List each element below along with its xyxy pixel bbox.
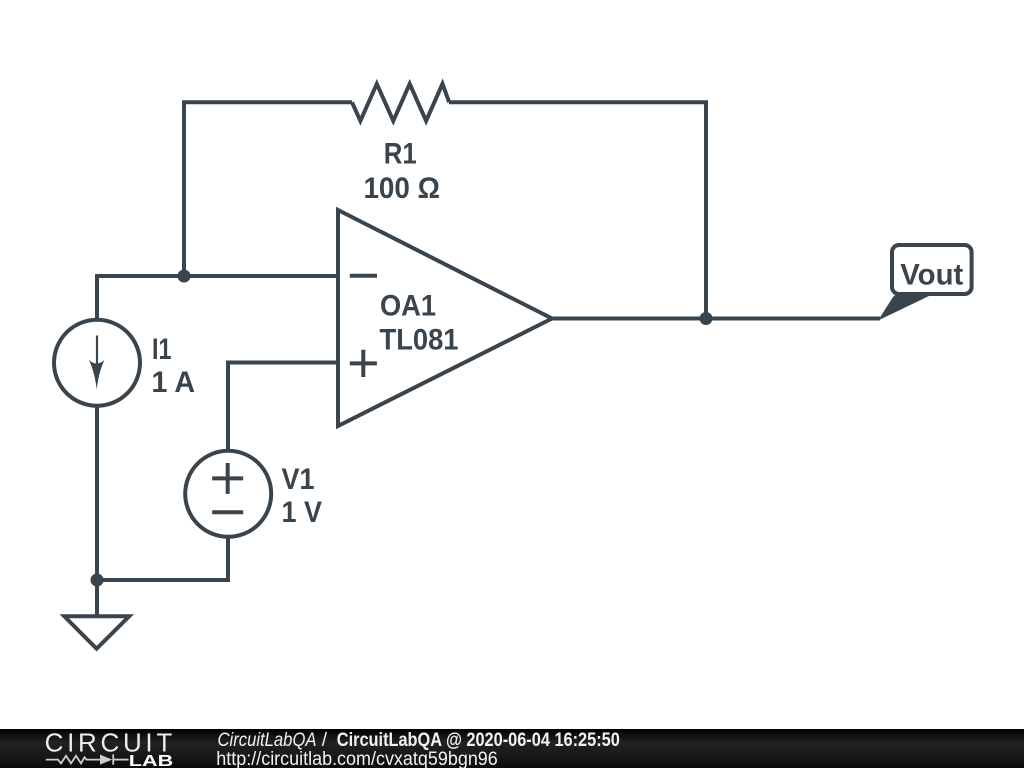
node junction dot inverting input bbox=[178, 270, 191, 283]
wire I1 to bottom rail bbox=[95, 406, 99, 580]
voltage source V1 plus mark bbox=[212, 463, 243, 494]
svg-text:Vout: Vout bbox=[900, 259, 963, 292]
svg-text:I1: I1 bbox=[152, 333, 172, 366]
svg-text:TL081: TL081 bbox=[380, 323, 459, 356]
node flag Vout pointer bbox=[878, 296, 930, 321]
op-amp OA1 inverting input minus mark bbox=[350, 274, 377, 278]
footer bar bbox=[0, 729, 1024, 768]
svg-text:1 V: 1 V bbox=[282, 496, 323, 529]
wire feedback left vertical bbox=[184, 102, 352, 276]
node flag Vout box bbox=[892, 245, 972, 294]
svg-text:R1: R1 bbox=[384, 138, 417, 171]
node junction dot ground rail bbox=[91, 574, 104, 587]
wire feedback right vertical bbox=[449, 102, 706, 318]
svg-text:http://circuitlab.com/cvxatq59: http://circuitlab.com/cvxatq59bgn96 bbox=[216, 749, 498, 768]
current source I1 arrow head bbox=[89, 360, 105, 390]
current source I1 circle bbox=[54, 320, 140, 406]
wire bottom rail to V1 bbox=[97, 538, 228, 581]
node junction dot output bbox=[700, 312, 713, 325]
op-amp OA1 non-inverting input plus mark bbox=[350, 350, 377, 377]
ground bbox=[64, 616, 129, 648]
op-amp OA1 triangle body bbox=[338, 210, 552, 426]
current source I1 arrow shaft bbox=[96, 336, 98, 379]
svg-text:1 A: 1 A bbox=[152, 366, 196, 399]
logo zigzag diode bbox=[46, 754, 129, 764]
voltage source V1 minus mark bbox=[212, 510, 243, 514]
svg-text:LAB: LAB bbox=[129, 753, 174, 768]
svg-text:V1: V1 bbox=[282, 463, 315, 496]
svg-text:100 Ω: 100 Ω bbox=[363, 172, 440, 205]
wire V1 to noninverting input bbox=[228, 363, 338, 451]
resistor R1 bbox=[352, 84, 449, 121]
wire output bbox=[552, 317, 880, 321]
svg-text:OA1: OA1 bbox=[380, 290, 436, 323]
voltage source V1 circle bbox=[185, 451, 271, 537]
wire ground stub bbox=[95, 580, 99, 616]
logo diode triangle bbox=[100, 755, 112, 765]
wire inverting input bbox=[97, 276, 338, 319]
